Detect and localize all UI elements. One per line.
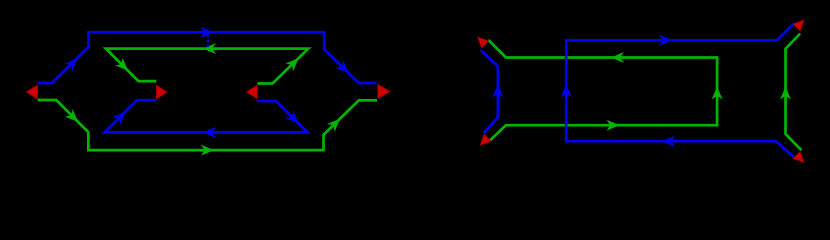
wire green strand BR to TR (right diagram, right vertical) bbox=[786, 34, 802, 151]
arrowhead blue up-right toward T2 bbox=[112, 108, 129, 125]
arrowhead green down-right from T1 bbox=[65, 109, 82, 126]
puncture marker red triangle BL (points down-left) bbox=[480, 134, 491, 145]
arrowhead green right on lower green line bbox=[607, 120, 620, 131]
arrowhead green up on x=717 vertical bbox=[712, 87, 723, 100]
arrowhead green left on upper green line bbox=[611, 52, 624, 63]
wire green strand T1 to T4 (left diagram, bottom green loop) bbox=[38, 100, 378, 150]
arrowhead blue right on top blue line bbox=[659, 35, 672, 46]
arrowhead blue left on bottom blue line bbox=[203, 127, 216, 138]
puncture marker red triangle T1 (points left) bbox=[26, 85, 37, 99]
wire blue strand T1 to T4 (left diagram, top loop) bbox=[38, 32, 377, 83]
arrowhead green down-right toward T2 bbox=[115, 58, 132, 75]
arrowhead blue right on top blue line bbox=[201, 27, 214, 38]
arrowhead blue up-right on T1 diagonal bbox=[64, 55, 81, 72]
puncture marker red triangle TR (points up-right) bbox=[793, 20, 804, 31]
wire green strand T3 to T2 (left diagram, upper green loop) bbox=[106, 49, 308, 84]
puncture marker red triangle TL (points up-left) bbox=[478, 37, 489, 48]
arrowhead blue down-right from T3 bbox=[285, 110, 302, 127]
arrowhead green up-right toward T4 bbox=[327, 115, 344, 132]
wire blue strand T3 to T2 (left diagram, bottom loop) bbox=[105, 100, 308, 132]
arrowhead blue up on x=498 vertical bbox=[492, 85, 503, 98]
arrowhead blue down-right toward T4 bbox=[335, 60, 352, 77]
arrowhead green left on top green line bbox=[203, 43, 216, 54]
dashed blue chord between top arrows bbox=[207, 35, 209, 48]
arrowhead blue up on x=566 vertical bbox=[561, 85, 572, 98]
arrowhead blue left on bottom blue line bbox=[662, 136, 675, 147]
arrowhead green up-right from T3 bbox=[285, 54, 302, 71]
wire green strand BL to TL (right diagram, big green loop) bbox=[488, 40, 717, 141]
arrowhead green right on bottom green line bbox=[201, 145, 214, 156]
puncture marker red triangle T4 (points right) bbox=[378, 84, 390, 98]
wire blue strand BL to TL (right diagram, short vertical) bbox=[481, 50, 498, 133]
puncture marker red triangle T2 (points right) bbox=[156, 85, 167, 99]
puncture marker red triangle T3 (points left) bbox=[247, 85, 258, 99]
wire blue strand BR to TR (right diagram, big blue rectangle) bbox=[566, 24, 794, 157]
arrowhead green up on x=785 vertical bbox=[780, 87, 791, 100]
puncture marker red triangle BR (points down-right) bbox=[793, 152, 804, 163]
